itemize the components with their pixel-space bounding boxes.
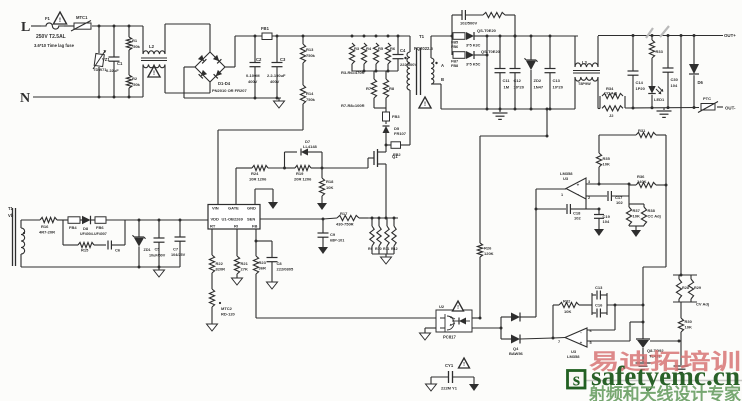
svg-text:LL4148: LL4148 <box>303 144 318 149</box>
op-amp U3 LM358 (B) <box>558 328 592 359</box>
svg-text:C13: C13 <box>595 285 603 290</box>
svg-text:SEN: SEN <box>247 217 255 222</box>
zener diode ZD2 <box>525 36 544 109</box>
diode D7 <box>285 139 323 168</box>
resistor R2 <box>126 75 140 97</box>
shunt regulator Q8 TL431 <box>636 339 681 362</box>
watermark s logo <box>568 370 586 391</box>
wire U3B noninverting input <box>587 322 643 341</box>
svg-text:10uF/50V: 10uF/50V <box>149 254 166 258</box>
wire primary negative rail <box>184 97 281 100</box>
wire feedback vertical A <box>642 135 668 339</box>
svg-text:PTC: PTC <box>703 96 711 101</box>
svg-text:射频和天线设计专家: 射频和天线设计专家 <box>588 384 741 401</box>
svg-text:L: L <box>21 20 30 35</box>
ground (R21) <box>232 278 243 285</box>
svg-text:CC Adj: CC Adj <box>604 91 617 96</box>
resistor R30 <box>678 302 692 365</box>
svg-text:2.2-150uF: 2.2-150uF <box>267 73 286 78</box>
svg-text:C2: C2 <box>256 57 262 62</box>
svg-text:4R7-20R: 4R7-20R <box>39 230 55 235</box>
op-amp U3 LM358 (A) <box>560 171 590 200</box>
ground (R37 R38) <box>631 230 641 237</box>
svg-text:C12: C12 <box>514 78 522 83</box>
wire opto anode feed <box>472 317 482 320</box>
diode rectifier QS-T0E20 (lower) <box>466 36 501 111</box>
svg-text:R4: R4 <box>366 46 372 51</box>
resistor J2 (shunt jumper) <box>602 106 623 118</box>
watermark slashes <box>646 26 669 38</box>
svg-text:+: + <box>580 341 583 346</box>
diode Q4 BAW56 (upper) <box>501 313 536 357</box>
capacitor C17 label <box>615 195 623 205</box>
svg-text:U2: U2 <box>439 304 445 309</box>
node drain junction <box>385 144 388 147</box>
svg-text:FB: FB <box>252 224 257 229</box>
resistor R22 <box>209 229 225 273</box>
svg-text:R6: R6 <box>390 46 396 51</box>
svg-text:R21: R21 <box>241 261 249 266</box>
resistor R1 <box>126 26 140 75</box>
svg-text:R5: R5 <box>378 46 384 51</box>
resistor R31 <box>599 128 666 138</box>
capacitor C4 <box>393 36 418 71</box>
svg-text:FB8: FB8 <box>451 64 458 68</box>
svg-text:QS-T0E20: QS-T0E20 <box>477 28 497 33</box>
wire opto cathode to diodes <box>472 317 503 339</box>
ground (C8) <box>267 282 278 289</box>
resistor R19 <box>285 165 324 181</box>
svg-text:102/500V: 102/500V <box>460 21 477 26</box>
resistor R29 <box>673 275 709 307</box>
node FB junction <box>255 229 258 243</box>
ferrite bead FB3 <box>383 112 401 121</box>
svg-text:10K: 10K <box>685 325 692 330</box>
svg-text:R35: R35 <box>603 156 611 161</box>
svg-text:27K: 27K <box>241 267 248 272</box>
svg-text:10K: 10K <box>633 214 640 219</box>
svg-text:10*20: 10*20 <box>553 85 564 90</box>
svg-text:10K: 10K <box>564 309 571 314</box>
svg-text:R31: R31 <box>638 128 646 133</box>
svg-text:104: 104 <box>671 83 678 88</box>
resistor R32 <box>553 299 592 339</box>
op IC U1 OB2269 <box>208 205 260 230</box>
wire aux Vdd rail <box>139 219 180 221</box>
resistor R9 <box>368 218 374 254</box>
svg-text:VIN: VIN <box>212 206 219 211</box>
thermistor MTC1 <box>64 15 143 31</box>
svg-text:B: B <box>441 77 444 82</box>
ground (sense resistors) <box>381 257 392 264</box>
svg-text:5: 5 <box>590 341 592 345</box>
resistor R15 (aux snubber) <box>63 220 106 253</box>
resistor R18 <box>319 168 334 203</box>
thermistor MTC2 <box>209 273 235 324</box>
resistor R21 <box>234 229 248 278</box>
capacitor C11 <box>495 36 511 109</box>
capacitor C5 <box>149 219 166 269</box>
svg-text:OUT+: OUT+ <box>724 33 736 38</box>
capacitor CY1 <box>431 363 474 391</box>
warning mark (U2) <box>453 301 464 311</box>
resistor R38 <box>629 204 661 230</box>
svg-text:C9: C9 <box>330 232 336 237</box>
svg-text:820R: 820R <box>216 267 226 272</box>
wire R14 to VIN <box>218 104 303 204</box>
svg-text:R29: R29 <box>694 286 701 290</box>
node N (mains neutral terminal) <box>20 91 143 106</box>
svg-text:L2: L2 <box>149 44 155 49</box>
svg-text:ZD2: ZD2 <box>534 78 542 83</box>
svg-text:N: N <box>20 91 30 106</box>
resistor R34 (CC shunt) <box>600 86 625 109</box>
svg-text:!: ! <box>463 362 465 368</box>
svg-text:CY1: CY1 <box>445 363 454 368</box>
svg-text:3.6*10 Time lag fuse: 3.6*10 Time lag fuse <box>34 43 75 48</box>
svg-text:D8: D8 <box>83 226 89 231</box>
resistor R26 on opto feed <box>477 108 548 319</box>
resistor R8 <box>341 71 395 108</box>
capacitor C18 <box>536 199 586 221</box>
svg-text:+: + <box>577 183 580 188</box>
svg-text:L3: L3 <box>582 60 588 65</box>
svg-text:A: A <box>441 63 444 68</box>
resistor R3 <box>349 43 359 64</box>
resistor R36 <box>586 174 666 201</box>
svg-text:C8: C8 <box>277 261 283 266</box>
svg-text:102: 102 <box>574 216 581 221</box>
svg-text:C16: C16 <box>595 303 603 308</box>
wire CV sense vertical <box>680 36 682 276</box>
warning mark (L2) <box>148 66 160 77</box>
svg-text:C5: C5 <box>155 247 161 252</box>
svg-text:!: ! <box>59 17 61 24</box>
svg-text:1: 1 <box>561 193 563 197</box>
svg-text:R33: R33 <box>656 49 664 54</box>
svg-text:!: ! <box>424 102 426 108</box>
inductor L3 (output choke) <box>573 36 600 109</box>
svg-text:R11: R11 <box>383 247 389 251</box>
svg-text:C7: C7 <box>173 247 179 252</box>
svg-text:PC817: PC817 <box>443 335 456 340</box>
svg-text:430-750R: 430-750R <box>336 222 354 227</box>
svg-text:U1-OB2269: U1-OB2269 <box>222 217 244 222</box>
svg-text:C14: C14 <box>636 80 644 85</box>
svg-text:R17: R17 <box>340 211 348 216</box>
svg-text:R19: R19 <box>296 171 304 176</box>
wire U3B inverting input <box>587 305 615 330</box>
ground (MTC2) <box>207 324 218 331</box>
svg-text:R30: R30 <box>685 319 693 324</box>
resistor R5 <box>373 43 383 64</box>
svg-text:C1: C1 <box>117 61 123 66</box>
LED LED1 <box>648 86 665 108</box>
resistor R16 <box>39 217 68 234</box>
svg-text:FR107: FR107 <box>394 131 407 136</box>
PTC thermistor <box>698 96 718 113</box>
svg-text:s: s <box>573 370 580 391</box>
wire GND2 pin <box>255 189 273 204</box>
svg-text:FB6: FB6 <box>96 225 104 230</box>
ground (CY1 secondary) <box>469 384 479 391</box>
resistor R11 <box>383 218 389 254</box>
resistor R12 <box>372 218 398 257</box>
svg-text:GATE: GATE <box>228 206 239 211</box>
diode rectifier QS-T0E20 (upper) <box>466 28 497 48</box>
capacitor C30 <box>663 36 679 108</box>
svg-text:750k: 750k <box>306 97 316 102</box>
snubber capacitor 102/500V <box>452 10 483 36</box>
svg-text:104: 104 <box>603 219 610 224</box>
ferrite bead FB1 <box>261 26 272 40</box>
resistor R13 <box>300 36 315 63</box>
svg-text:104/25V: 104/25V <box>171 253 186 257</box>
svg-text:36R: 36R <box>259 266 266 271</box>
svg-text:RD-120: RD-120 <box>221 312 236 317</box>
capacitor C8 <box>256 241 294 282</box>
capacitor C14 <box>628 36 646 109</box>
diode D8 <box>80 216 107 236</box>
svg-text:PN2010 OR FR207: PN2010 OR FR207 <box>212 88 247 93</box>
bridge rectifier D1-D4 <box>184 24 247 98</box>
svg-text:FB7: FB7 <box>451 60 458 64</box>
svg-text:R14: R14 <box>306 91 314 96</box>
svg-text:ZD1: ZD1 <box>144 248 151 252</box>
ground (aux supply) <box>154 267 165 277</box>
resistor R10 <box>375 218 382 254</box>
svg-text:D1-D4: D1-D4 <box>218 81 231 86</box>
wire clamp bottom bar <box>352 64 398 73</box>
transformer T1 auxiliary winding Vb <box>8 206 180 267</box>
ferrite bead FB2 <box>386 142 401 157</box>
warning mark (fuse) <box>53 12 66 24</box>
svg-text:R26: R26 <box>484 246 492 251</box>
svg-text:R8: R8 <box>389 86 395 91</box>
ground (C9) <box>318 247 328 254</box>
watermark red text <box>589 349 741 374</box>
ferrite bead FB5 FB6 <box>451 33 465 49</box>
svg-text:R10: R10 <box>375 247 382 251</box>
svg-text:222M Y1: 222M Y1 <box>441 386 458 391</box>
capacitor C3 <box>267 36 286 98</box>
zener diode ZD1 <box>133 219 151 269</box>
svg-text:R23: R23 <box>259 260 267 265</box>
wire B+ rail left <box>235 35 262 38</box>
ground (R18) <box>317 203 327 210</box>
svg-text:MTC2: MTC2 <box>221 306 233 311</box>
capacitor C13 C16 network <box>592 285 643 318</box>
svg-text:R9: R9 <box>368 247 373 251</box>
inductor L2 (common-mode choke) <box>141 24 210 97</box>
diode D6 <box>689 36 704 108</box>
resistor R28 <box>673 274 697 300</box>
svg-text:R13: R13 <box>306 47 314 52</box>
svg-text:R38: R38 <box>648 208 656 213</box>
svg-text:10R 1206: 10R 1206 <box>249 177 267 182</box>
svg-text:R7-R8=100R: R7-R8=100R <box>341 103 365 108</box>
svg-text:120K: 120K <box>484 251 494 256</box>
svg-text:C3: C3 <box>280 57 286 62</box>
snubber resistor <box>451 12 517 37</box>
ground (opto emitter) <box>420 328 437 340</box>
warning mark (T1) <box>419 97 431 108</box>
svg-text:UF4004-UF4007: UF4004-UF4007 <box>80 232 107 236</box>
ground (secondary, C11) <box>493 109 508 119</box>
svg-text:R3: R3 <box>354 46 360 51</box>
svg-text:C30: C30 <box>671 77 679 82</box>
svg-text:RT: RT <box>210 224 216 229</box>
svg-text:T8P9W: T8P9W <box>578 82 591 86</box>
svg-text:OUT-: OUT- <box>725 106 736 111</box>
svg-text:LED1: LED1 <box>654 97 665 102</box>
resistor R6 <box>341 43 396 75</box>
svg-text:10*20: 10*20 <box>514 85 525 90</box>
capacitor C1 <box>106 26 123 97</box>
svg-text:10K: 10K <box>326 185 333 190</box>
ground (CY1 primary) <box>426 384 437 391</box>
varistor VZ1 <box>93 26 110 97</box>
svg-text:CV Adj: CV Adj <box>696 302 709 307</box>
svg-text:400V: 400V <box>248 79 258 84</box>
svg-text:C4: C4 <box>400 48 406 53</box>
wire VDD feed <box>180 219 208 221</box>
capacitor C6 <box>108 220 125 253</box>
svg-text:D6: D6 <box>698 80 704 85</box>
resistor R24 <box>236 165 286 204</box>
svg-text:3: 3 <box>588 180 590 184</box>
MOSFET Q1 <box>322 145 398 218</box>
svg-text:FB4: FB4 <box>69 225 77 230</box>
svg-text:10K: 10K <box>603 162 610 167</box>
svg-text:0.22uF: 0.22uF <box>106 68 119 73</box>
wire U3B output <box>553 337 565 340</box>
capacitor C19 <box>586 208 611 230</box>
svg-text:T1: T1 <box>419 34 425 39</box>
capacitor C7 <box>171 219 186 268</box>
ferrite bead FB7 FB8 <box>451 36 465 68</box>
svg-text:102: 102 <box>616 200 623 205</box>
resistor R7 <box>366 71 377 98</box>
svg-text:GND: GND <box>247 206 256 211</box>
diode D5 <box>383 121 407 145</box>
svg-text:1N47: 1N47 <box>534 85 544 90</box>
wire clamp to FB3 <box>374 98 386 112</box>
ground (R30) <box>674 366 689 372</box>
svg-text:R12: R12 <box>391 247 398 251</box>
svg-text:FB1: FB1 <box>261 26 270 31</box>
svg-text:250V T2.5AL: 250V T2.5AL <box>36 34 66 40</box>
svg-text:J2: J2 <box>609 113 614 118</box>
resistor R35 <box>596 135 610 184</box>
svg-text:R7: R7 <box>366 86 372 91</box>
ground (GND2) <box>268 202 278 209</box>
ground (C19) <box>594 229 604 236</box>
svg-text:C13: C13 <box>553 78 561 83</box>
watermark green text <box>588 384 741 404</box>
optocoupler U2 PC817 <box>436 304 472 340</box>
resistor R33 <box>649 36 663 87</box>
resistor R17 <box>323 211 368 227</box>
svg-text:240K: 240K <box>637 179 647 184</box>
svg-text:VDD: VDD <box>211 217 220 222</box>
wire secondary bottom rail <box>441 106 736 111</box>
node L (mains live terminal) <box>21 20 41 35</box>
svg-text:MTC1: MTC1 <box>76 15 88 20</box>
svg-text:BAW56: BAW56 <box>509 351 524 356</box>
svg-text:C6: C6 <box>115 248 121 253</box>
watermark safetyemc.cn <box>591 361 740 391</box>
wire sense bar <box>368 217 398 220</box>
wire U3A output net <box>535 189 567 317</box>
svg-text:2: 2 <box>588 196 590 200</box>
ferrite bead FB4 <box>68 217 80 230</box>
resistor R4 <box>361 43 371 64</box>
resistor R37 <box>626 184 644 226</box>
ground (TL431) <box>636 363 651 369</box>
svg-text:CC Adj: CC Adj <box>648 214 661 219</box>
svg-text:R32: R32 <box>563 299 571 304</box>
svg-text:R18: R18 <box>326 179 334 184</box>
svg-text:FB3: FB3 <box>392 114 400 119</box>
watermark underline <box>566 380 742 382</box>
transformer T1 <box>401 34 454 145</box>
capacitor C12 <box>510 36 525 109</box>
svg-text:750k: 750k <box>131 44 141 49</box>
svg-text:F1: F1 <box>45 16 51 21</box>
svg-text:1M: 1M <box>504 85 510 90</box>
svg-text:3*5 K5C: 3*5 K5C <box>466 63 481 67</box>
wire secondary top rail <box>474 33 736 38</box>
svg-text:R1: R1 <box>132 38 138 43</box>
svg-text:750k: 750k <box>306 53 316 58</box>
ground (primary DC-) <box>274 98 285 108</box>
capacitor C13 (output) <box>545 36 564 109</box>
svg-text:3*5 K3C: 3*5 K3C <box>466 44 481 48</box>
svg-text:!: ! <box>153 71 155 77</box>
ground (secondary, output) <box>657 108 672 118</box>
svg-text:Q1: Q1 <box>392 154 398 159</box>
svg-text:0-100M: 0-100M <box>246 73 260 78</box>
ferrite bead FB6 <box>91 217 140 230</box>
diode Q4 BAW56 (lower) <box>501 335 555 344</box>
svg-text:R22: R22 <box>216 261 224 266</box>
svg-text:U3: U3 <box>563 176 569 181</box>
svg-text:400V: 400V <box>270 79 280 84</box>
wire B+ rail <box>272 35 410 38</box>
svg-text:750k: 750k <box>131 82 141 87</box>
svg-text:R28: R28 <box>682 286 689 290</box>
svg-text:20R 1206: 20R 1206 <box>294 177 312 182</box>
svg-text:R2: R2 <box>132 76 138 81</box>
svg-text:C11: C11 <box>503 78 511 83</box>
resistor R23 <box>253 241 266 274</box>
svg-text:R24: R24 <box>251 171 259 176</box>
svg-text:QS-T0E20: QS-T0E20 <box>481 49 501 54</box>
svg-text:R37: R37 <box>633 208 641 213</box>
svg-text:68P-101: 68P-101 <box>330 239 344 243</box>
resistor R14 <box>300 63 315 104</box>
svg-text:1P20: 1P20 <box>636 86 646 91</box>
svg-text:R15: R15 <box>81 248 89 253</box>
node live rail junctions <box>98 25 131 28</box>
svg-text:!: ! <box>457 305 459 311</box>
capacitor C2 <box>246 36 262 98</box>
wire SEN line <box>260 218 325 221</box>
svg-text:222/0805: 222/0805 <box>277 267 294 272</box>
wire U3A noninverting input <box>586 183 631 186</box>
fuse F1 <box>34 16 75 48</box>
